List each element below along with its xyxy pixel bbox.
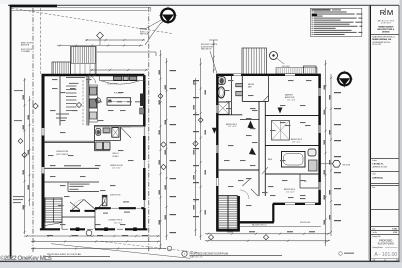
diamond tags mid plan bbox=[33, 103, 39, 109]
leader curve to north arrow bbox=[145, 21, 164, 45]
svg-text:EXIST. PORCH: EXIST. PORCH bbox=[21, 49, 33, 51]
notes bold patch bbox=[312, 14, 317, 17]
setback dashed line bbox=[40, 8, 42, 74]
svg-text:BEDROOM #4: BEDROOM #4 bbox=[284, 189, 295, 191]
svg-text:BEDROOM #2: BEDROOM #2 bbox=[226, 124, 237, 126]
dim text specks right of right plan bbox=[334, 92, 341, 93]
svg-text:LIVING ROOM: LIVING ROOM bbox=[56, 151, 68, 153]
hall lower door swings bbox=[242, 167, 268, 196]
bath zone bottom wall bbox=[217, 114, 242, 116]
svg-text:S/S SCRN: S/S SCRN bbox=[343, 164, 351, 166]
fireplace chimney block bbox=[102, 195, 107, 206]
ceiling fan / symbol circle bbox=[270, 52, 278, 60]
title block: date / job rows bbox=[370, 226, 399, 228]
ceiling fixture circle kitchen bbox=[95, 98, 100, 103]
svg-text:13'-0" x 15'-6": 13'-0" x 15'-6" bbox=[287, 99, 296, 101]
right plan: master bath suite walls bbox=[231, 75, 233, 115]
north arrow (left plan) bbox=[161, 9, 175, 23]
svg-text:6.2022: 6.2022 bbox=[392, 228, 397, 230]
sheet top border bbox=[8, 4, 399, 6]
svg-text:FLOOR PLANS: FLOOR PLANS bbox=[378, 243, 395, 246]
foyer closet wall bbox=[59, 75, 61, 126]
svg-text:BUILDING LINE: BUILDING LINE bbox=[300, 222, 310, 224]
right plan: stair block bbox=[218, 196, 237, 230]
left dim column inner bbox=[29, 96, 31, 206]
svg-text:R: R bbox=[380, 8, 386, 17]
bath tub right bbox=[282, 152, 306, 168]
svg-text:BEDROOM #3: BEDROOM #3 bbox=[291, 139, 302, 141]
notes heading bbox=[312, 9, 331, 10]
kitchen top dim text row bbox=[97, 101, 102, 102]
right plan top-left vertical dim bbox=[213, 40, 215, 73]
living room bottom wall bbox=[43, 167, 99, 169]
corridor double wall bbox=[95, 125, 145, 126]
window tick marks left plan walls bbox=[43, 127, 144, 230]
dim line above kitchen bbox=[90, 69, 148, 71]
closet tiny shelf texts bbox=[66, 86, 77, 87]
right plan window ticks bbox=[217, 75, 319, 204]
svg-text:LINEN CL.: LINEN CL. bbox=[112, 153, 120, 155]
existing fence lines top (nested) bbox=[12, 8, 151, 12]
left plan: entry stair bottom-left bbox=[45, 198, 62, 222]
hall bottom wall + porch side bbox=[62, 216, 95, 218]
hall walls lower-left bbox=[43, 181, 99, 183]
left plan: stair lower flight bbox=[52, 62, 71, 75]
walls below bath / bedroom2 bottom bbox=[265, 173, 319, 175]
right plan: exterior walls bbox=[216, 74, 321, 76]
title block: project section bbox=[370, 158, 399, 160]
svg-text:12'-6" x 13'-2": 12'-6" x 13'-2" bbox=[112, 168, 121, 170]
right plan: deck strip above top wall bbox=[276, 68, 317, 74]
vertical dim text smudges bbox=[23, 95, 24, 100]
WIC closet bbox=[300, 174, 320, 188]
right plan right dim columns bbox=[325, 60, 327, 246]
site boundary thick L (left plan) bbox=[10, 5, 12, 259]
svg-text:GUEST ROOM: GUEST ROOM bbox=[110, 195, 121, 197]
svg-text:Drawing Number:: Drawing Number: bbox=[372, 247, 383, 249]
left plan: kitchen counter band bbox=[100, 76, 145, 81]
general notes block bbox=[310, 8, 362, 36]
svg-text:PROPOSED SECOND FLOOR PLAN: PROPOSED SECOND FLOOR PLAN bbox=[190, 253, 229, 256]
title block right border bbox=[398, 5, 400, 261]
svg-text:& D E S I G N: & D E S I G N bbox=[381, 22, 390, 24]
bottom diagonal site lines bbox=[51, 244, 190, 259]
right plan title label bbox=[182, 251, 187, 256]
svg-text:ZAIR MIZAL: ZAIR MIZAL bbox=[372, 177, 384, 180]
bath fixtures: toilet sink shower bbox=[96, 128, 101, 135]
sheet bottom border bbox=[0, 261, 402, 263]
svg-text:10'-10" x 13'-2": 10'-10" x 13'-2" bbox=[107, 83, 118, 85]
svg-text:PROPOSED: PROPOSED bbox=[379, 240, 392, 242]
vanity sinks on wall bbox=[236, 84, 243, 87]
hexagon callout bbox=[333, 161, 341, 168]
svg-text:10'-8" x 11'-2": 10'-8" x 11'-2" bbox=[292, 142, 301, 144]
svg-text:REF. PLAN: REF. PLAN bbox=[140, 33, 150, 36]
left margin tiny notes bbox=[14, 90, 23, 91]
dim text specks right of left plan bbox=[170, 70, 177, 71]
property dash-dot line left bbox=[32, 8, 34, 252]
porch dim specks bbox=[123, 201, 129, 202]
entry door swing diagonals bbox=[70, 200, 105, 211]
right end small marks near label bbox=[339, 252, 343, 256]
kitchen island bbox=[107, 98, 131, 106]
svg-text:21-18: 21-18 bbox=[393, 232, 397, 234]
extra tick clusters top of plans bbox=[59, 44, 141, 46]
left plan: stair tower hatch upper bbox=[71, 47, 97, 76]
third bottom dim line with circle end bbox=[31, 248, 166, 250]
svg-text:Job No:: Job No: bbox=[372, 232, 377, 234]
wc strip fixtures: toilet, oval tub, shower bbox=[218, 77, 225, 85]
counter overhang arc bbox=[101, 81, 140, 84]
left margin extra note rows bbox=[56, 114, 69, 115]
north arrow leader + note (left plan) bbox=[139, 20, 162, 29]
svg-text:RENEE MIZRAHI, RA.: RENEE MIZRAHI, RA. bbox=[372, 38, 392, 41]
central corridor walls bbox=[259, 101, 265, 196]
svg-text:5 ROYAL PL,: 5 ROYAL PL, bbox=[372, 162, 384, 165]
right gray edge bbox=[400, 0, 402, 262]
circled keynote at bottom wall bbox=[86, 230, 92, 236]
bottom gray band bbox=[0, 262, 402, 268]
door leaf triangles bbox=[248, 121, 255, 130]
svg-text:A - 101.00: A - 101.00 bbox=[374, 252, 397, 258]
bedroom2 top wall bbox=[240, 118, 259, 120]
wardrobe closet with X bbox=[272, 121, 290, 141]
svg-text:M: M bbox=[387, 8, 393, 17]
property dash-dot line right of left plan bbox=[148, 7, 150, 252]
kitchen appliance boxes bbox=[114, 76, 122, 80]
balcony line below bbox=[240, 226, 321, 228]
partial entry wall bbox=[70, 210, 95, 212]
living room walls bbox=[43, 141, 95, 142]
kitchen right wall pantry/ovens dark cluster bbox=[140, 94, 144, 107]
bath door diagonal bbox=[121, 127, 132, 138]
top dim right plan bbox=[318, 35, 339, 37]
title block: divider 1 bbox=[370, 34, 399, 36]
laundry pair bbox=[96, 142, 103, 150]
scan tint bbox=[0, 0, 402, 4]
svg-text:DINING ROOM: DINING ROOM bbox=[110, 165, 123, 167]
extra horizontal dim specks both plans bbox=[48, 155, 54, 156]
master bedroom divider bbox=[265, 115, 319, 117]
right plan: open stair top bbox=[242, 48, 267, 75]
diamond top bbox=[97, 32, 104, 39]
notch top right bbox=[304, 66, 317, 73]
dashed diagonal survey line bbox=[12, 8, 173, 33]
notes body rows bbox=[312, 11, 313, 14]
porch front wall bbox=[95, 207, 144, 209]
svg-text:ADDITION: ADDITION bbox=[21, 44, 30, 47]
top dim line left plan bbox=[85, 39, 145, 41]
left plan: exterior walls bbox=[42, 74, 145, 76]
scattered small dim texts inside left plan bbox=[60, 92, 66, 93]
left plan: roof overhang line top right bbox=[97, 52, 156, 56]
svg-text:DESIGN: DESIGN bbox=[382, 31, 390, 33]
drawing area / title block divider bbox=[369, 5, 371, 261]
line-of-floor-above specks + foyer arc bbox=[66, 77, 85, 78]
bath partition walls bbox=[95, 125, 121, 150]
left dim column outer bbox=[24, 78, 26, 234]
right plan left dim columns bbox=[200, 58, 202, 240]
svg-text:NY 10.01.2021: NY 10.01.2021 bbox=[372, 44, 381, 46]
svg-text:©2022 OneKey MLS: ©2022 OneKey MLS bbox=[0, 254, 53, 262]
right-of-left-plan dim columns bbox=[160, 50, 162, 248]
kitchen left counter column with fridge bbox=[87, 75, 89, 126]
left dim diamonds bbox=[22, 152, 27, 157]
left plan extra top dim line bbox=[57, 45, 143, 47]
svg-text:11'-0" x 12'-6": 11'-0" x 12'-6" bbox=[228, 126, 237, 128]
svg-text:COVERED PORCH: COVERED PORCH bbox=[108, 220, 123, 222]
svg-text:PROPOSED FIRST FLOOR PLAN: PROPOSED FIRST FLOOR PLAN bbox=[47, 253, 81, 256]
hall bath top wall bbox=[265, 145, 319, 147]
svg-text:11'-6" x 12'-0": 11'-6" x 12'-0" bbox=[286, 191, 295, 193]
bottom dim lines left plan bbox=[24, 235, 160, 237]
bottom dim lines right plan bbox=[205, 233, 330, 235]
svg-text:BEDROOM: BEDROOM bbox=[285, 97, 295, 99]
scattered dim texts inside right plan bbox=[226, 108, 232, 109]
porch columns bbox=[76, 227, 80, 231]
north arrow (right plan) bbox=[338, 73, 351, 86]
dim text specks left of right plan bbox=[193, 80, 199, 81]
